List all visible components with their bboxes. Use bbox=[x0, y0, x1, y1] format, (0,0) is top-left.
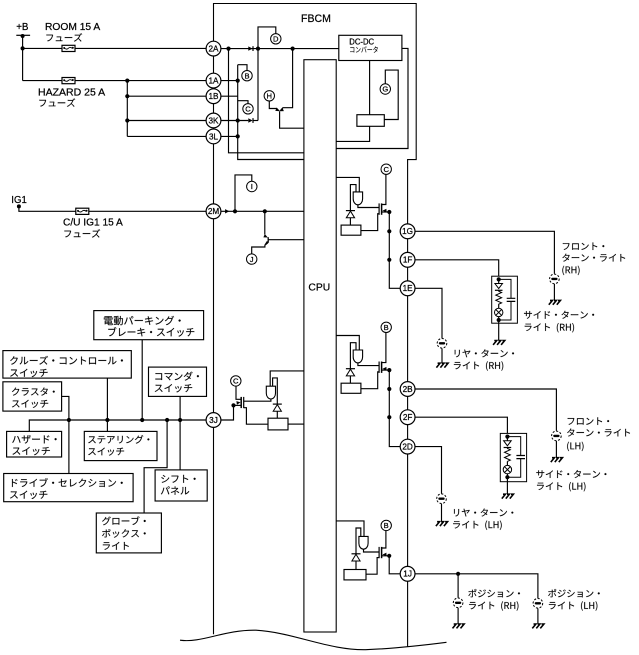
lamp side turn RH bulb bbox=[495, 308, 503, 316]
svg-text:3K: 3K bbox=[208, 116, 219, 125]
test point B bbox=[242, 71, 252, 81]
rear turn LH label line1 bbox=[454, 509, 513, 517]
steering label line2 bbox=[88, 448, 124, 456]
connector pin 2F bbox=[400, 410, 415, 425]
junction side LH bottom bbox=[505, 475, 509, 479]
driver 4 box to CPU bbox=[288, 423, 304, 425]
hook to test point C bbox=[238, 101, 248, 104]
drive selection label line2 bbox=[10, 491, 47, 499]
junction side RH bottom bbox=[497, 318, 501, 322]
ground position RH bbox=[453, 624, 465, 628]
front turn LH label line1 bbox=[568, 417, 609, 424]
commander label line1 bbox=[155, 372, 199, 381]
side turn LH label line2 bbox=[537, 482, 585, 491]
fuse HAZARD 25A bbox=[62, 78, 75, 84]
junction 2M rail A bbox=[233, 209, 237, 213]
switch box cluster bbox=[3, 382, 62, 411]
MOSFET Q2 bbox=[379, 362, 387, 373]
wire position RH to ground bbox=[457, 608, 459, 624]
driver 2 output rail bbox=[389, 370, 400, 447]
junction +B/ROOM bbox=[21, 46, 25, 50]
diode D6 bbox=[352, 554, 361, 561]
cruise label line2 bbox=[10, 369, 47, 377]
wire parking brake drop bbox=[141, 340, 143, 420]
resistor R6 zigzag bbox=[496, 290, 502, 304]
junction output pin y=259.8 bbox=[387, 258, 391, 262]
rear turn RH label line2 bbox=[454, 361, 503, 370]
wire hazard vertical distribution bbox=[126, 81, 128, 137]
position RH label line2 bbox=[469, 601, 518, 610]
svg-text:1B: 1B bbox=[208, 92, 219, 101]
MOSFET Q4 bbox=[236, 397, 243, 408]
junction Q3 source bbox=[387, 554, 391, 558]
wire 2B to front turn LH bbox=[415, 389, 556, 431]
MOSFET Q3 drain to test point bbox=[382, 531, 386, 548]
driver 2 hook bbox=[350, 343, 356, 369]
resistor R5 box bbox=[268, 418, 288, 430]
test point C4 bbox=[231, 376, 241, 386]
wire position RH drop bbox=[457, 574, 459, 598]
svg-text:2D: 2D bbox=[402, 443, 413, 452]
junction Q1 source bbox=[387, 210, 391, 214]
switch box shift panel bbox=[155, 470, 207, 501]
junction 2A rail C bbox=[291, 47, 295, 51]
wire front turn RH to ground bbox=[553, 284, 555, 300]
svg-text:2A: 2A bbox=[208, 45, 219, 54]
driver 1 hook bbox=[350, 185, 356, 211]
ground side turn RH bbox=[493, 341, 505, 345]
position LH label line2 bbox=[549, 601, 597, 610]
ground side turn LH bbox=[502, 494, 514, 498]
wire 2A rail to DC-DC bbox=[221, 48, 339, 50]
front turn LH label line3 bbox=[567, 442, 583, 451]
C/U IG1 fuse label line2 bbox=[64, 229, 100, 237]
hook to test point D bbox=[258, 27, 276, 49]
MOSFET Q4 drain to test point bbox=[236, 386, 241, 399]
wire 3K to diode bbox=[221, 120, 248, 122]
wire 2A rail down to CPU bbox=[229, 49, 304, 153]
connector pin 3K bbox=[206, 113, 221, 128]
switch box steering bbox=[84, 431, 157, 460]
junction side RH top bbox=[497, 277, 501, 281]
hook to test point I bbox=[235, 175, 252, 211]
svg-text:1F: 1F bbox=[403, 256, 413, 265]
side turn RH module box bbox=[492, 276, 518, 323]
connector pin 3L bbox=[206, 129, 221, 144]
steering label line1 bbox=[88, 435, 149, 444]
glovebox label line1 bbox=[102, 516, 146, 525]
test point D bbox=[271, 34, 281, 44]
junction bus commander bbox=[178, 418, 182, 422]
MOSFET Q4 source lead bbox=[234, 404, 242, 406]
wire IG1 fuse to pin 2M bbox=[89, 210, 207, 212]
svg-text:1J: 1J bbox=[403, 570, 412, 579]
glovebox label line3 bbox=[103, 542, 129, 550]
wire 3K diode to node B bbox=[253, 120, 258, 122]
fuse ROOM 15A bbox=[62, 45, 75, 51]
connector pin 2B bbox=[400, 382, 415, 397]
connector pin 1G bbox=[400, 224, 415, 239]
wire R1 to CPU bbox=[336, 126, 369, 141]
front turn LH label line2 bbox=[567, 429, 630, 437]
driver 3 capsule out to gate bbox=[364, 549, 380, 552]
cluster label line1 bbox=[12, 387, 55, 395]
test point G bbox=[380, 84, 390, 94]
svg-text:+B: +B bbox=[16, 22, 29, 33]
wire 3L to junction bbox=[221, 135, 238, 137]
junction Q2 source bbox=[387, 368, 391, 372]
svg-text:3J: 3J bbox=[209, 416, 218, 425]
side turn RH label line2 bbox=[525, 323, 574, 332]
svg-text:B: B bbox=[384, 521, 389, 530]
wire node B down to 3K diode bbox=[257, 49, 259, 121]
wire 1B to junction bbox=[221, 95, 238, 97]
diode D1 on 2A rail bbox=[248, 46, 253, 51]
MOSFET Q2 source lead bbox=[382, 369, 390, 371]
capacitor C2 bbox=[516, 456, 525, 459]
test point C bbox=[243, 104, 253, 114]
svg-text:1A: 1A bbox=[208, 77, 219, 86]
driver 4 capsule out to gate bbox=[244, 399, 271, 401]
cruise label line1 bbox=[10, 356, 123, 365]
cluster label line2 bbox=[12, 400, 48, 408]
lamp position LH bbox=[533, 599, 543, 609]
svg-text:IG1: IG1 bbox=[11, 195, 27, 206]
transistor Q6 bbox=[263, 234, 268, 245]
svg-text:B: B bbox=[384, 323, 389, 332]
svg-text:B: B bbox=[244, 71, 249, 80]
svg-text:CPU: CPU bbox=[308, 282, 330, 294]
junction output pin y=417.2 bbox=[387, 415, 391, 419]
+B terminal bbox=[16, 34, 30, 38]
diode D5 bbox=[346, 369, 355, 376]
driver 3 output rail bbox=[389, 556, 400, 574]
MOSFET Q2 drain to test point bbox=[382, 333, 386, 363]
lamp rear turn RH bbox=[437, 339, 447, 349]
connector pin 1E bbox=[400, 281, 415, 296]
svg-text:2F: 2F bbox=[403, 413, 413, 422]
driver 4 gate to box bbox=[244, 408, 268, 425]
DC-DC converter U10 box bbox=[339, 35, 402, 60]
switch box drive selection bbox=[4, 474, 133, 502]
diode D10 side turn LH bbox=[504, 441, 512, 448]
junction hazard to 3K bbox=[125, 118, 129, 122]
driver 2 input from CPU bbox=[336, 336, 359, 351]
driver 3 input from CPU bbox=[336, 521, 364, 537]
driver 3 hook bbox=[356, 528, 361, 554]
switch box glovebox light bbox=[96, 513, 161, 553]
junction 1A bbox=[236, 79, 240, 83]
driver 3 diode to box bbox=[355, 561, 357, 570]
wire 1G to front turn RH bbox=[415, 231, 554, 273]
svg-text:C: C bbox=[383, 165, 389, 174]
MOSFET Q3 bbox=[379, 547, 387, 558]
resistor R1 box bbox=[357, 115, 384, 127]
comparator U3 capsule bbox=[359, 536, 368, 549]
wire side RH diode lead bbox=[498, 279, 500, 283]
lamp front turn LH bbox=[552, 431, 562, 441]
capacitor C1 branch bbox=[499, 279, 511, 320]
drive selection label line1 bbox=[12, 478, 123, 487]
svg-text:G: G bbox=[382, 85, 388, 94]
position RH label line1 bbox=[468, 589, 520, 597]
connector pin 1F bbox=[400, 252, 415, 267]
diode D8 bbox=[273, 404, 282, 411]
wire 2M rail to CPU bbox=[221, 210, 304, 212]
DC-DC converter label line2 bbox=[350, 46, 378, 52]
wire side LH to ground bbox=[506, 477, 508, 494]
ground position LH bbox=[532, 624, 544, 628]
wire +B vertical feed bbox=[22, 36, 24, 81]
wire hazard to pin 3K bbox=[127, 120, 206, 122]
position LH label line1 bbox=[548, 589, 600, 597]
test point B3 bbox=[381, 520, 391, 530]
hook to test point B bbox=[238, 65, 247, 71]
wire H to transistor bbox=[269, 101, 278, 110]
junction 3K bbox=[236, 118, 240, 122]
junction bus parking bbox=[140, 418, 144, 422]
wire DC-DC output down bbox=[369, 61, 371, 115]
svg-text:3L: 3L bbox=[209, 132, 219, 141]
capacitor C2 branch bbox=[507, 437, 520, 478]
junction 3L bbox=[236, 134, 240, 138]
wire cruise-steering drop bbox=[106, 378, 108, 431]
junction HAZARD distribution bbox=[125, 79, 129, 83]
wire transistor emitter to J bbox=[252, 243, 268, 254]
svg-text:HAZARD 25 A: HAZARD 25 A bbox=[38, 87, 106, 98]
connector pin 1J bbox=[400, 566, 415, 581]
wire 1A to junction bbox=[221, 80, 238, 82]
junction side LH top bbox=[505, 435, 509, 439]
wire 1J position rail bbox=[415, 574, 538, 598]
test point I bbox=[247, 181, 257, 191]
wire front turn LH to ground bbox=[555, 441, 557, 458]
ground rear turn LH bbox=[436, 522, 448, 526]
driver 1 diode to box bbox=[349, 218, 351, 225]
wire rear turn RH to ground bbox=[441, 348, 443, 363]
svg-text:C/U IG1 15 A: C/U IG1 15 A bbox=[63, 218, 123, 229]
wire 2M branch down to transistor bbox=[264, 211, 266, 234]
wire side LH diode lead bbox=[506, 437, 508, 441]
driver 1 box to gate bbox=[361, 214, 379, 231]
rear turn RH label line1 bbox=[455, 349, 514, 357]
junction position RH bbox=[456, 572, 460, 576]
wire ROOM fuse to pin 2A bbox=[75, 47, 207, 49]
wire rear turn LH to ground bbox=[441, 504, 443, 522]
parking brake label line2 bbox=[108, 327, 194, 337]
switch box commander bbox=[149, 367, 207, 396]
diode D2 on 3K line bbox=[248, 118, 253, 123]
wire glovebox drop bbox=[144, 420, 167, 513]
MOSFET Q1 drain to test point bbox=[382, 174, 386, 204]
driver 2 diode to box bbox=[349, 376, 351, 383]
diode D9 side turn RH bbox=[495, 284, 503, 291]
test point H bbox=[264, 91, 274, 101]
ground front turn LH bbox=[551, 458, 563, 462]
wire 1E to rear turn RH bbox=[415, 288, 442, 338]
svg-text:2M: 2M bbox=[208, 207, 220, 216]
wire cluster switch drop bbox=[62, 396, 69, 473]
parking brake label line1 bbox=[104, 316, 181, 325]
rear turn LH label line2 bbox=[453, 520, 501, 529]
lamp position RH bbox=[453, 598, 463, 608]
fuse C/U IG1 15A bbox=[76, 208, 89, 214]
wire hazard to pin 3L bbox=[127, 135, 206, 137]
HAZARD fuse label line2 bbox=[39, 98, 75, 106]
wire 2D to rear turn LH bbox=[415, 447, 442, 494]
junction output pin y=389 bbox=[387, 387, 391, 391]
CPU box bbox=[304, 60, 336, 632]
driver 4 hook bbox=[273, 378, 278, 404]
wire DC-DC right output bbox=[336, 48, 408, 148]
wire IG1 to fuse bbox=[19, 206, 76, 211]
svg-text:D: D bbox=[273, 35, 279, 44]
glovebox label line2 bbox=[102, 529, 146, 538]
wire 1A-3L vertical bus bbox=[238, 65, 304, 160]
resistor R7 zigzag bbox=[505, 448, 511, 462]
transistor Q5 arrows bbox=[275, 108, 284, 112]
wire R1 to test point G loop bbox=[384, 70, 398, 119]
comparator U4 capsule bbox=[266, 386, 275, 399]
resistor R2 box bbox=[341, 225, 361, 235]
svg-text:J: J bbox=[250, 255, 254, 264]
driver 1 input from CPU bbox=[336, 177, 359, 192]
wire transistor base to CPU bbox=[268, 239, 304, 241]
hazard label line1 bbox=[12, 435, 56, 443]
wire HAZARD fuse to pin 1A bbox=[75, 80, 206, 82]
shift panel label line2 bbox=[161, 486, 189, 494]
junction 2A rail B bbox=[256, 47, 260, 51]
junction Q4 source bbox=[231, 403, 235, 407]
hazard label line2 bbox=[12, 447, 49, 455]
svg-text:I: I bbox=[251, 182, 253, 191]
wire switch bus bbox=[29, 420, 206, 431]
wire +B to HAZARD fuse bbox=[23, 80, 63, 82]
wire transistor emitter to CPU bbox=[280, 112, 304, 129]
junction bus cluster bbox=[67, 418, 71, 422]
lamp side turn LH bulb bbox=[503, 465, 511, 473]
front turn RH label line2 bbox=[562, 254, 625, 262]
ground front turn RH bbox=[549, 300, 561, 304]
driver 1 capsule out to gate bbox=[358, 205, 379, 208]
MOSFET Q1 bbox=[379, 203, 387, 214]
junction bus cruise bbox=[105, 418, 109, 422]
svg-text:ROOM 15 A: ROOM 15 A bbox=[45, 22, 101, 33]
driver 1 output rail bbox=[389, 212, 400, 288]
connector pin 1B bbox=[206, 89, 221, 104]
wire node C down to transistor bbox=[281, 49, 293, 111]
connector pin 3J bbox=[206, 413, 221, 428]
capacitor C1 bbox=[507, 298, 516, 301]
FBCM module box bbox=[214, 4, 417, 648]
IG1 terminal bbox=[17, 204, 21, 208]
wire side RH lamp leads bbox=[498, 305, 500, 321]
driver 4 diode to box bbox=[276, 411, 278, 418]
shift panel label line1 bbox=[161, 475, 195, 483]
svg-text:DC-DC: DC-DC bbox=[349, 37, 374, 46]
junction 2M rail B bbox=[263, 209, 267, 213]
svg-text:C: C bbox=[233, 377, 239, 386]
wire 1F to side turn RH bbox=[415, 260, 499, 280]
diode D3 on 2M rail bbox=[225, 209, 229, 213]
wire position LH to ground bbox=[537, 608, 539, 623]
driver 3 box to gate bbox=[366, 558, 379, 575]
comparator U1 capsule bbox=[353, 192, 362, 205]
resistor R4 box bbox=[344, 570, 366, 580]
connector pin 2A bbox=[206, 41, 221, 56]
side turn LH module box bbox=[500, 433, 526, 481]
driver 2 box to gate bbox=[361, 372, 379, 389]
test point B2 bbox=[381, 322, 391, 332]
wire side RH to ground bbox=[498, 320, 500, 340]
commander label line2 bbox=[155, 384, 192, 392]
MOSFET Q1 source lead bbox=[382, 211, 390, 213]
MOSFET Q3 source lead bbox=[382, 555, 390, 557]
junction output pin y=231.3 bbox=[387, 229, 391, 233]
side turn LH label line1 bbox=[536, 470, 606, 478]
test point C1 bbox=[381, 164, 391, 174]
svg-text:FBCM: FBCM bbox=[301, 13, 331, 25]
switch box hazard bbox=[7, 431, 62, 457]
junction bus glovebox bbox=[165, 418, 169, 422]
driver 4 input from CPU bbox=[270, 371, 304, 386]
connector pin 2D bbox=[400, 439, 415, 454]
front turn RH label line3 bbox=[562, 266, 579, 275]
wire side LH lamp leads bbox=[506, 462, 508, 478]
diagram continuation break line bbox=[180, 630, 447, 650]
resistor R3 box bbox=[341, 383, 361, 393]
diode D4 bbox=[346, 211, 355, 218]
lamp front turn RH bbox=[550, 274, 560, 284]
svg-text:1G: 1G bbox=[402, 227, 413, 236]
svg-text:C: C bbox=[245, 105, 251, 114]
driver 2 capsule out to gate bbox=[358, 363, 379, 366]
svg-text:2B: 2B bbox=[403, 385, 414, 394]
ground rear turn RH bbox=[436, 363, 448, 367]
junction hazard to 1B bbox=[125, 94, 129, 98]
comparator U2 capsule bbox=[353, 350, 362, 363]
switch box cruise control bbox=[3, 351, 131, 379]
svg-text:H: H bbox=[267, 92, 272, 101]
wire 3J to Q4 bbox=[221, 405, 234, 420]
front turn RH label line1 bbox=[563, 243, 604, 250]
wire 2F to side turn LH bbox=[415, 417, 507, 436]
junction 2A rail A bbox=[226, 47, 230, 51]
test point J bbox=[247, 254, 257, 264]
wire +B to ROOM fuse bbox=[23, 47, 63, 49]
side turn RH label line1 bbox=[524, 311, 594, 319]
lamp rear turn LH bbox=[437, 494, 447, 504]
switch box parking brake bbox=[94, 311, 204, 340]
connector pin 2M bbox=[206, 204, 221, 219]
connector pin 1A bbox=[206, 73, 221, 88]
svg-text:1E: 1E bbox=[403, 284, 414, 293]
wire commander-shift drop bbox=[179, 396, 181, 470]
wire hazard to pin 1B bbox=[127, 95, 206, 97]
ROOM fuse label line2 bbox=[46, 33, 82, 41]
